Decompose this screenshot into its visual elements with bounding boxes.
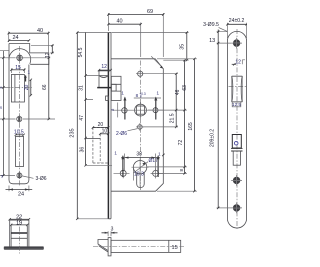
svg-text:38: 38 xyxy=(136,152,142,158)
svg-text:24: 24 xyxy=(18,192,24,198)
vertical centerline xyxy=(19,46,21,186)
deadbolt cutout xyxy=(231,135,242,166)
cylinder screw hole left xyxy=(114,168,130,178)
centerline of bolt xyxy=(93,246,184,248)
dim 3 xyxy=(102,227,118,237)
latch bolt xyxy=(97,71,111,88)
svg-text:36: 36 xyxy=(79,147,85,153)
svg-text:72: 72 xyxy=(178,140,184,146)
svg-text:3-Ø9.5: 3-Ø9.5 xyxy=(203,22,219,28)
svg-text:15: 15 xyxy=(172,245,178,251)
dim 38 xyxy=(121,152,160,171)
top fixing hole 2-Ø6 (upper) xyxy=(136,70,144,79)
dim 10 deadbolt xyxy=(99,128,109,135)
dim 15 xyxy=(10,65,25,73)
svg-text:24: 24 xyxy=(12,35,18,41)
dim 20 deadbolt xyxy=(92,122,110,129)
svg-text:235: 235 xyxy=(69,128,75,137)
latch head band xyxy=(11,232,27,234)
svg-text:209±0.2: 209±0.2 xyxy=(210,129,216,147)
mechanism boxes xyxy=(106,76,121,100)
latch cutout hourglass xyxy=(232,76,243,102)
dim 40 top xyxy=(107,19,142,57)
left cut-off dim chain xyxy=(0,51,16,179)
svg-text:10: 10 xyxy=(102,128,108,134)
strike centerline xyxy=(236,29,238,229)
dim 24±0.2 xyxy=(226,18,247,38)
dim 69 top xyxy=(107,9,164,57)
screw hole bottom xyxy=(17,172,22,179)
svg-text:3-Ø6: 3-Ø6 xyxy=(35,176,46,182)
label 3-Ø9.5 with leader xyxy=(203,22,228,32)
svg-text:40: 40 xyxy=(116,19,122,25)
svg-text:2-Ø6: 2-Ø6 xyxy=(116,131,127,137)
label Ø17 leader xyxy=(134,158,159,173)
dim 19 xyxy=(10,221,29,227)
svg-text:20: 20 xyxy=(24,85,30,91)
chamfer arrow xyxy=(151,56,163,68)
svg-text:12: 12 xyxy=(235,60,241,66)
svg-text:10.3: 10.3 xyxy=(134,172,144,178)
dashed deadbolt hidden box xyxy=(86,128,109,164)
euro cylinder hole xyxy=(132,159,149,188)
dim 22 xyxy=(9,214,31,220)
keeper inner box xyxy=(11,225,27,247)
latch window xyxy=(11,75,24,103)
svg-text:15: 15 xyxy=(15,65,21,71)
svg-text:Ø17: Ø17 xyxy=(148,158,158,164)
svg-text:24±0.2: 24±0.2 xyxy=(229,18,245,24)
svg-text:47: 47 xyxy=(79,115,85,121)
dim 13 xyxy=(209,30,231,45)
case outline xyxy=(111,59,163,191)
dim 209±0.2 rotated xyxy=(210,43,232,209)
svg-text:54.5: 54.5 xyxy=(78,47,84,57)
left dim chain 235 xyxy=(69,31,108,220)
base flange xyxy=(4,247,43,250)
label 12.5 xyxy=(232,102,241,107)
svg-text:35: 35 xyxy=(179,44,185,50)
screw hole middle xyxy=(17,115,22,123)
lower fixing hole 2-Ø6 xyxy=(136,123,143,131)
deadbolt slot xyxy=(15,137,23,167)
follower square spindle hole xyxy=(113,92,162,118)
horizontal centerline latch xyxy=(6,86,33,88)
svg-text:21.5: 21.5 xyxy=(170,113,176,123)
svg-text:40: 40 xyxy=(37,28,43,34)
dim 12 latch xyxy=(98,64,112,71)
strike plate outline xyxy=(227,31,246,228)
label 3-Ø6 with leader xyxy=(22,176,47,182)
screw hole 3 xyxy=(231,203,242,214)
cylinder screw hole right xyxy=(151,168,163,178)
right dim 63 / 72 / 8 chain xyxy=(147,59,189,175)
svg-text:12.5: 12.5 xyxy=(232,102,241,107)
left dim chain 54.5/31/47/36 xyxy=(78,33,112,167)
handle screw hole left xyxy=(118,97,127,120)
svg-text:69: 69 xyxy=(147,9,153,15)
dim 1 cyl left xyxy=(114,151,124,177)
right dim 165 xyxy=(157,58,197,193)
dome boss arc xyxy=(9,49,31,64)
dim 12 rotated top right xyxy=(31,44,54,58)
dim 20 rotated xyxy=(24,79,32,97)
svg-text:63: 63 xyxy=(182,85,188,91)
2-Ø6 label with leader xyxy=(116,129,138,138)
svg-text:20: 20 xyxy=(98,122,104,128)
svg-text:12: 12 xyxy=(101,64,107,70)
faceplate edge-on double line xyxy=(108,33,111,219)
case vertical centerline xyxy=(139,61,141,191)
dim 1 cyl right xyxy=(157,152,165,178)
dim 66 rotated xyxy=(23,57,55,121)
latch head bevel xyxy=(98,240,108,253)
dim 24 bottom xyxy=(6,186,33,198)
centerline xyxy=(18,217,20,254)
faceplate outline xyxy=(9,44,49,184)
screw hole 1 xyxy=(231,38,242,49)
right dim 46 and 21.5 chain xyxy=(143,73,187,129)
faceplate strip xyxy=(108,238,111,256)
keeper outer box xyxy=(10,220,29,247)
bolt body xyxy=(111,240,181,252)
screw hole top (3-Ø6) xyxy=(15,54,23,63)
screw hole 2 xyxy=(231,175,242,186)
label 12 latch cutout xyxy=(232,60,245,66)
svg-text:46: 46 xyxy=(175,89,181,95)
svg-text:13: 13 xyxy=(209,38,215,44)
handle screw hole right xyxy=(149,97,163,120)
svg-text:66: 66 xyxy=(42,84,48,90)
right dim 35 xyxy=(112,31,189,61)
dim 40 top xyxy=(8,28,50,54)
dim 24 top xyxy=(8,35,30,42)
svg-text:31: 31 xyxy=(79,85,85,91)
dim 1 latch xyxy=(25,69,31,81)
svg-text:12: 12 xyxy=(45,52,51,58)
svg-text:165: 165 xyxy=(188,122,194,131)
